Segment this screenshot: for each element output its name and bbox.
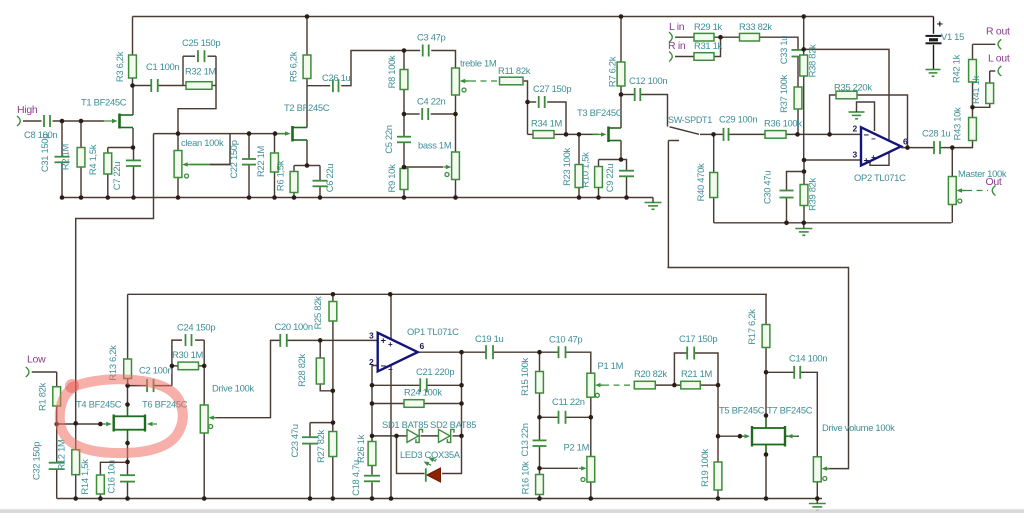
svg-text:C27 150p: C27 150p (533, 83, 571, 94)
svg-text:C26 1u: C26 1u (322, 72, 351, 83)
svg-text:bass 1M: bass 1M (418, 140, 452, 151)
svg-text:R17 6,2k: R17 6,2k (746, 309, 757, 345)
svg-text:SW-SPDT1: SW-SPDT1 (668, 115, 712, 125)
svg-text:2: 2 (853, 124, 858, 134)
svg-text:C18 4,7u: C18 4,7u (350, 460, 361, 496)
svg-text:C28 1u: C28 1u (922, 128, 951, 139)
svg-text:P2 1M: P2 1M (564, 442, 590, 453)
svg-text:3: 3 (369, 331, 374, 341)
svg-text:C6 22u: C6 22u (324, 164, 335, 193)
svg-text:R in: R in (668, 40, 686, 52)
svg-text:C24 150p: C24 150p (177, 322, 215, 333)
svg-text:C5 22n: C5 22n (383, 125, 394, 154)
svg-text:C11 22n: C11 22n (552, 396, 585, 407)
svg-text:R10 1,5k: R10 1,5k (580, 152, 591, 188)
svg-text:R22 1M: R22 1M (255, 145, 266, 177)
svg-text:6: 6 (420, 341, 425, 351)
svg-text:Drive 100k: Drive 100k (212, 383, 254, 394)
svg-text:R37 100k: R37 100k (778, 75, 789, 113)
svg-text:C16 10u: C16 10u (106, 460, 117, 493)
svg-text:T5 BF245C: T5 BF245C (719, 405, 765, 416)
svg-text:R11 82k: R11 82k (498, 65, 531, 76)
svg-text:R14 1,5k: R14 1,5k (79, 459, 90, 495)
svg-text:R38 82k: R38 82k (807, 44, 818, 77)
svg-text:T1 BF245C: T1 BF245C (81, 97, 127, 108)
svg-text:C2 100n: C2 100n (139, 365, 172, 376)
svg-text:R28 82k: R28 82k (296, 353, 307, 386)
svg-text:C12 100n: C12 100n (629, 75, 667, 86)
svg-text:+: + (381, 336, 387, 347)
svg-text:V1 15: V1 15 (941, 31, 964, 42)
svg-text:C31 150p: C31 150p (39, 134, 50, 172)
svg-text:R29 1k: R29 1k (694, 21, 723, 32)
svg-text:−: − (864, 130, 870, 141)
svg-text:R35 220k: R35 220k (834, 82, 872, 93)
svg-text:SD2 BAT85: SD2 BAT85 (430, 419, 476, 430)
svg-text:R40 470k: R40 470k (695, 163, 706, 201)
svg-text:R36 100k: R36 100k (764, 118, 802, 129)
svg-text:R30 1M: R30 1M (172, 349, 204, 360)
svg-text:L out: L out (988, 53, 1010, 65)
svg-text:T2 BF245C: T2 BF245C (284, 102, 330, 113)
svg-text:C33 1u: C33 1u (778, 36, 789, 65)
svg-text:R15 100k: R15 100k (519, 358, 530, 396)
svg-text:Master 100k: Master 100k (958, 168, 1007, 179)
svg-text:R12 1M: R12 1M (56, 439, 67, 471)
svg-text:R2 1M: R2 1M (60, 143, 71, 170)
svg-text:R3 6,2k: R3 6,2k (114, 51, 125, 82)
svg-text:R16 10k: R16 10k (520, 461, 531, 494)
svg-text:R43 10k: R43 10k (952, 107, 963, 140)
svg-text:−: − (381, 361, 387, 372)
svg-text:R8 100k: R8 100k (386, 55, 397, 88)
svg-text:LED3 CQX35A: LED3 CQX35A (400, 449, 461, 460)
svg-text:High: High (17, 104, 38, 116)
svg-text:R33 82k: R33 82k (739, 21, 772, 32)
svg-text:C9 22u: C9 22u (604, 164, 615, 193)
svg-text:R1 82k: R1 82k (37, 382, 48, 411)
svg-text:R27 82k: R27 82k (315, 429, 326, 462)
svg-text:−: − (871, 135, 876, 144)
svg-text:R32 1M: R32 1M (185, 66, 217, 77)
svg-text:R42 1k: R42 1k (951, 54, 962, 83)
svg-text:C17 150p: C17 150p (679, 333, 717, 344)
svg-text:+: + (388, 340, 393, 349)
svg-text:R23 100k: R23 100k (561, 148, 572, 186)
svg-text:+: + (937, 19, 943, 31)
svg-text:C21 220p: C21 220p (416, 366, 454, 377)
svg-text:R41 1k: R41 1k (970, 75, 981, 104)
svg-text:L in: L in (669, 21, 685, 33)
svg-text:6: 6 (903, 137, 908, 147)
svg-text:R out: R out (986, 26, 1010, 38)
svg-text:R20 82k: R20 82k (634, 368, 667, 379)
svg-text:R31 1k: R31 1k (694, 40, 723, 51)
svg-text:C32 150p: C32 150p (31, 442, 42, 480)
svg-text:OP2 TL071C: OP2 TL071C (854, 172, 906, 183)
svg-text:R9 10k: R9 10k (386, 164, 397, 193)
svg-text:C23 47u: C23 47u (289, 424, 300, 457)
svg-text:C3 47p: C3 47p (417, 32, 446, 43)
svg-text:+: + (871, 153, 876, 162)
svg-text:C7 22u: C7 22u (111, 162, 122, 191)
svg-text:R6 1,5k: R6 1,5k (275, 160, 286, 191)
svg-text:C14 100n: C14 100n (789, 353, 827, 364)
svg-text:T7 BF245C: T7 BF245C (767, 405, 813, 416)
svg-text:−: − (388, 365, 393, 374)
svg-text:C10 47p: C10 47p (549, 334, 582, 345)
svg-text:C29 100n: C29 100n (719, 114, 757, 125)
svg-text:R19 100k: R19 100k (699, 449, 710, 487)
svg-text:R26 1k: R26 1k (355, 434, 366, 463)
svg-text:R21 1M: R21 1M (681, 368, 713, 379)
svg-text:R39 82k: R39 82k (807, 177, 818, 210)
svg-text:Low: Low (27, 354, 46, 366)
svg-text:SD1 BAT85: SD1 BAT85 (382, 419, 428, 430)
svg-text:R24 100k: R24 100k (404, 387, 442, 398)
svg-text:Drive volume 100k: Drive volume 100k (822, 422, 895, 433)
svg-text:C25 150p: C25 150p (182, 37, 220, 48)
svg-text:T3 BF245C: T3 BF245C (577, 107, 623, 118)
svg-text:clean 100k: clean 100k (181, 137, 224, 148)
svg-text:C4 22n: C4 22n (417, 96, 446, 107)
svg-text:R34 1M: R34 1M (531, 118, 563, 129)
svg-text:2: 2 (369, 357, 374, 367)
svg-text:C1 100n: C1 100n (146, 61, 179, 72)
svg-text:R5 6,2k: R5 6,2k (288, 51, 299, 82)
svg-text:R7 6,2k: R7 6,2k (607, 56, 618, 87)
svg-text:treble 1M: treble 1M (460, 58, 497, 69)
svg-text:C19 1u: C19 1u (475, 333, 504, 344)
svg-text:+: + (864, 156, 870, 167)
svg-text:C13 22n: C13 22n (519, 423, 530, 456)
svg-text:C22 150p: C22 150p (228, 140, 239, 178)
svg-text:OP1 TL071C: OP1 TL071C (407, 326, 459, 337)
svg-text:P1 1M: P1 1M (598, 360, 624, 371)
svg-text:R4 1,5k: R4 1,5k (87, 144, 98, 175)
svg-text:C20 100n: C20 100n (275, 321, 313, 332)
svg-text:T4 BF245C: T4 BF245C (76, 399, 122, 410)
svg-text:C30 47u: C30 47u (762, 171, 773, 204)
svg-text:3: 3 (853, 150, 858, 160)
svg-text:R25 82k: R25 82k (312, 296, 323, 329)
